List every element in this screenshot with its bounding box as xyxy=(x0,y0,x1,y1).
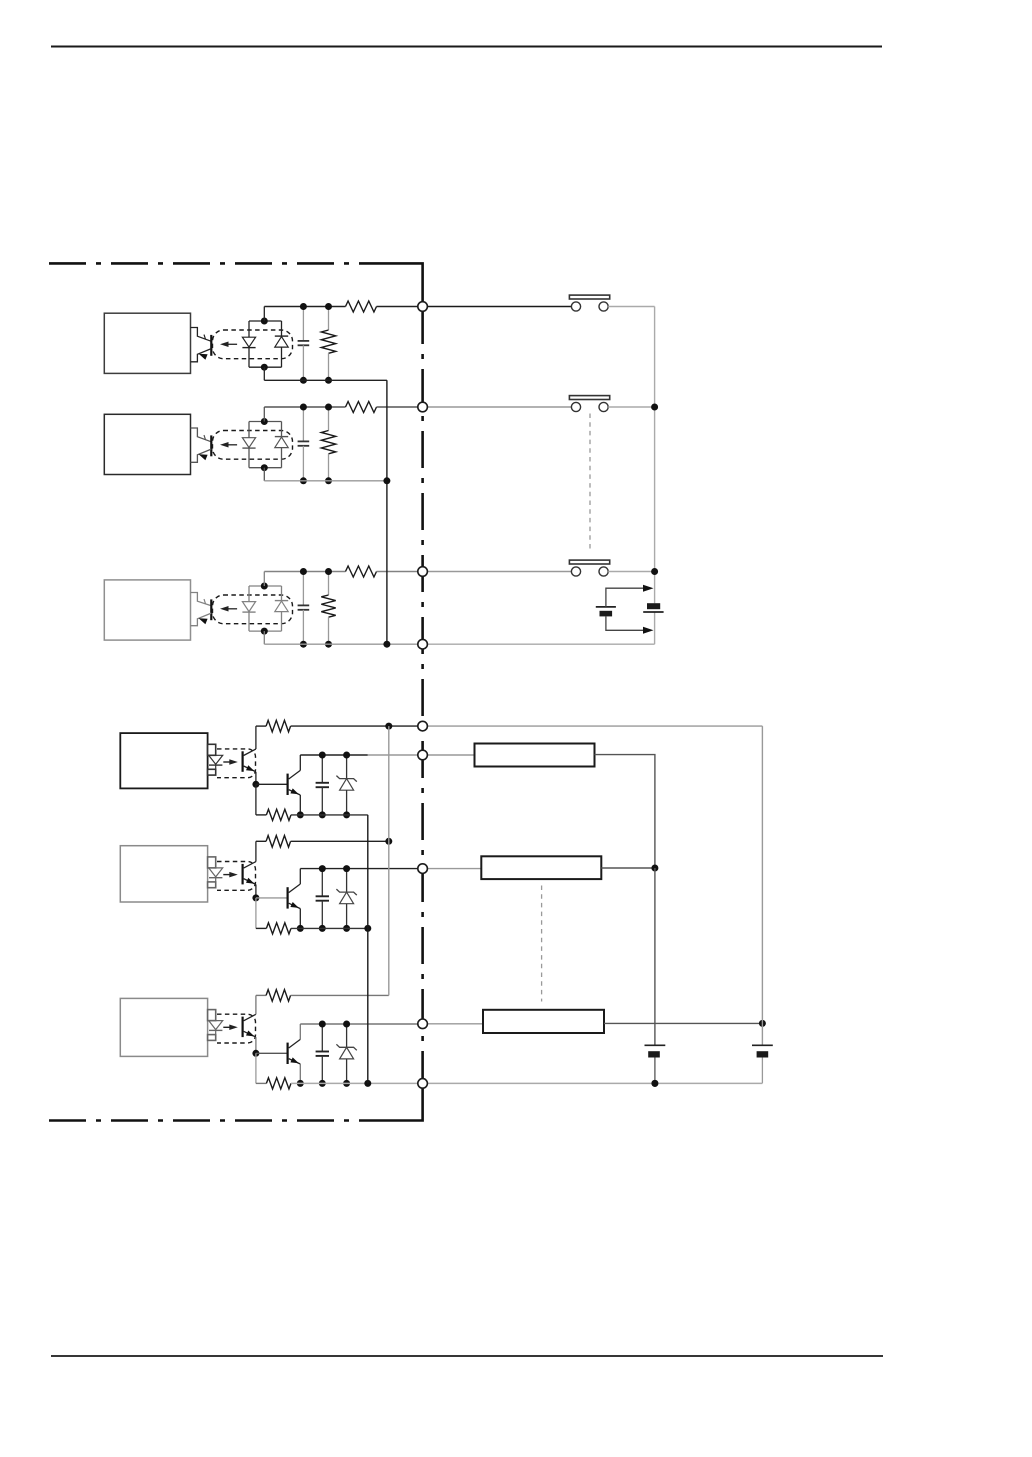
ellipsis dashed line (more output channels) xyxy=(541,886,543,1002)
junction zener-bottom OUT2 xyxy=(343,925,350,932)
junction cap-bottom OUT3 xyxy=(319,1080,326,1087)
switch S3 contacts xyxy=(571,567,580,576)
wire emitter bus OUT3 to terminal xyxy=(291,1082,418,1084)
junction zener-top OUT1 xyxy=(343,752,350,759)
optocoupler PC2 light arrow xyxy=(224,444,237,446)
capacitor C6 OUT3 xyxy=(321,1024,323,1052)
wire Q1 collector to bus xyxy=(299,755,301,770)
resistor R4b (base-emitter) OUT1 xyxy=(255,784,257,815)
junction cap-bottom IN3 xyxy=(300,641,307,648)
wire terminal to switch S3 xyxy=(427,571,571,573)
junction zener-bottom OUT3 xyxy=(343,1080,350,1087)
optocoupler PC6 dashed outline xyxy=(217,1014,256,1043)
junction cap-bottom OUT1 xyxy=(319,811,326,818)
optocoupler PC4 LED D4 xyxy=(209,755,223,764)
wire phototransistor emitter to base node OUT3 xyxy=(255,1037,257,1053)
capacitor C4 OUT1 xyxy=(321,755,323,783)
wire switch S2 to supply rail xyxy=(608,406,654,408)
junction base node OUT3 xyxy=(252,1050,259,1057)
input LED pair D2a anti-parallel bridge xyxy=(248,422,250,438)
wire bridge stubs IN3 xyxy=(263,572,265,587)
unit boundary dash-dot right edge xyxy=(421,307,424,1083)
wire field supply rail (right vertical) xyxy=(654,307,656,604)
junction emitter OUT1 xyxy=(297,811,304,818)
wire base OUT1 xyxy=(256,783,287,785)
terminal node T4 xyxy=(418,639,428,649)
optocoupler PC1 dashed outline xyxy=(213,330,293,359)
wire COM return IN xyxy=(427,643,654,645)
junction res-bottom IN2 xyxy=(325,477,332,484)
optocoupler PC4 LED terminals xyxy=(208,744,216,755)
wire input line IN1 top xyxy=(264,306,345,308)
optocoupler PC3 light arrow xyxy=(224,608,237,610)
terminal node T5 xyxy=(418,721,428,731)
wire output supply vertical (gray) xyxy=(388,726,390,995)
junction bridge-bottom IN2 xyxy=(261,464,268,471)
junction common vertical OUT3 xyxy=(364,1080,371,1087)
wire Q3 collector to bus xyxy=(299,1024,301,1039)
resistor R4a (collector) OUT1 xyxy=(256,725,266,727)
junction zener-bottom OUT1 xyxy=(343,811,350,818)
transistor Q1 power NPN xyxy=(287,774,289,795)
unit boundary bottom-right corner xyxy=(396,1083,423,1120)
zener diode ZD1 OUT1 xyxy=(346,755,348,779)
wire input line IN3 bottom xyxy=(264,643,418,645)
unit boundary top-right corner xyxy=(396,263,423,307)
optocoupler PC6 phototransistor xyxy=(242,1017,244,1038)
switch S2 contacts xyxy=(571,402,580,411)
page bottom rule xyxy=(51,1355,883,1357)
zener diode ZD3 OUT3 xyxy=(346,1024,348,1047)
wire R5a to supply vertical OUT2 xyxy=(291,840,389,842)
transistor Q2 power NPN xyxy=(287,887,289,908)
junction cap-top IN2 xyxy=(300,404,307,411)
input LED pair D3a anti-parallel bridge xyxy=(248,586,250,602)
switch S2 actuator bar xyxy=(569,396,609,400)
junction zener-top OUT3 xyxy=(343,1021,350,1028)
junction res-bottom IN1 xyxy=(325,377,332,384)
resistor R1a (series input) xyxy=(346,301,377,312)
wire R4a to supply terminal OUT1 xyxy=(291,725,418,727)
optocoupler PC4 light arrow xyxy=(223,761,233,763)
wire bridge stubs IN2 xyxy=(263,407,265,422)
capacitor C1 (filter) xyxy=(302,307,304,341)
junction rail S3 xyxy=(651,568,658,575)
terminal node T6 xyxy=(418,750,428,760)
output internal-circuit box OUT1 xyxy=(120,733,207,788)
wire phototransistor emitter to base node OUT2 xyxy=(255,884,257,898)
optocoupler PC5 LED terminals xyxy=(208,857,216,868)
wire input line IN3 top xyxy=(264,571,345,573)
wire base OUT2 xyxy=(256,897,287,899)
junction emitter OUT3 xyxy=(297,1080,304,1087)
wire input common vertical xyxy=(386,380,388,644)
resistor R3b (bleeder) xyxy=(328,572,330,596)
page top rule xyxy=(51,46,882,48)
optocoupler PC2 dashed outline xyxy=(213,431,293,460)
switch S1 actuator bar xyxy=(569,295,609,299)
unit boundary dash-dot top edge xyxy=(49,262,396,265)
load L1 box xyxy=(427,754,474,756)
battery BT1 input supply (right polarity) xyxy=(647,603,660,609)
wire Q2 emitter to bus xyxy=(299,909,301,929)
junction emitter OUT2 xyxy=(297,925,304,932)
input internal-circuit box IN1 xyxy=(104,313,190,373)
junction base node OUT2 xyxy=(252,894,259,901)
optocoupler PC1 light arrow xyxy=(224,343,237,345)
junction bridge-top IN2 xyxy=(261,418,268,425)
transistor Q3 power NPN xyxy=(287,1043,289,1064)
terminal node T9 xyxy=(418,1079,428,1089)
junction COM bus BT2 xyxy=(651,1080,658,1087)
junction cap-top OUT3 xyxy=(319,1021,326,1028)
resistor R6b (base-emitter) OUT3 xyxy=(255,1053,257,1083)
wire collector bus OUT1 xyxy=(300,754,368,756)
switch S1 contacts xyxy=(571,302,580,311)
wire output supply top run xyxy=(427,725,762,727)
junction cap-bottom OUT2 xyxy=(319,925,326,932)
wire terminal to switch S1 xyxy=(427,306,571,308)
wire supply rail down to battery BT2 xyxy=(654,868,656,1045)
switch S3 actuator bar xyxy=(569,560,609,564)
wire output common vertical (black) xyxy=(367,815,369,1084)
capacitor C5 OUT2 xyxy=(321,869,323,897)
junction res-bottom IN3 xyxy=(325,641,332,648)
wire bridge stubs IN1 xyxy=(263,307,265,322)
junction res-top IN2 xyxy=(325,404,332,411)
wire base OUT3 xyxy=(256,1052,287,1054)
optocoupler PC4 dashed outline xyxy=(217,749,256,778)
wire battery alternate top lead xyxy=(606,588,646,607)
junction bridge-bottom IN3 xyxy=(261,628,268,635)
optocoupler PC1 phototransistor (output side) xyxy=(191,328,212,342)
optocoupler PC6 LED D6 xyxy=(209,1021,223,1030)
optocoupler PC2 phototransistor (output side) xyxy=(191,428,212,442)
junction bridge-bottom IN1 xyxy=(261,364,268,371)
wire phototransistor emitter to base node OUT1 xyxy=(255,772,257,785)
junction cap-top IN3 xyxy=(300,568,307,575)
wire battery alternate bottom lead xyxy=(606,616,646,630)
wire load L3 to right supply rail xyxy=(604,1022,762,1024)
wire emitter bus OUT1 to common vertical xyxy=(291,814,368,816)
load L3 box xyxy=(427,1023,483,1025)
junction right supply rail L3 xyxy=(759,1020,766,1027)
resistor R2a (series input) xyxy=(346,402,377,413)
junction bridge-top IN1 xyxy=(261,318,268,325)
junction supply vertical OUT2 xyxy=(385,838,392,845)
junction cap-top OUT2 xyxy=(319,865,326,872)
junction cap-bottom IN2 xyxy=(300,477,307,484)
input LED pair D1a anti-parallel bridge xyxy=(248,321,250,337)
input internal-circuit box IN2 xyxy=(104,414,190,474)
junction res-top IN1 xyxy=(325,303,332,310)
wire Q2 collector to bus xyxy=(299,869,301,884)
optocoupler PC5 LED D5 xyxy=(209,868,223,877)
wire phototransistor collector OUT3 xyxy=(255,995,257,1014)
junction bridge-top IN3 xyxy=(261,583,268,590)
wire collector bus OUT2 xyxy=(300,868,418,870)
terminal node T8 xyxy=(418,1019,428,1029)
junction common IN2 bottom xyxy=(264,480,387,482)
wire load L1 to supply rail xyxy=(595,755,655,868)
resistor R3a (series input) xyxy=(346,566,377,577)
unit boundary dash-dot bottom edge xyxy=(49,1119,396,1122)
junction rail S2 xyxy=(651,404,658,411)
wire input line IN2 top xyxy=(264,406,345,408)
optocoupler PC3 dashed outline xyxy=(213,595,293,624)
wire terminal to switch S2 xyxy=(427,406,571,408)
capacitor C2 (filter) xyxy=(302,407,304,441)
resistor R2b (bleeder) xyxy=(328,407,330,431)
junction cap-top OUT1 xyxy=(319,752,326,759)
wire phototransistor collector OUT1 xyxy=(255,726,257,749)
terminal node T1 xyxy=(418,302,428,312)
wire R6a to supply vertical OUT3 xyxy=(291,994,389,996)
wire resistor to terminal IN3 xyxy=(377,571,418,573)
junction res-top IN3 xyxy=(325,568,332,575)
resistor R5a (collector) OUT2 xyxy=(256,840,266,842)
junction zener-top OUT2 xyxy=(343,865,350,872)
wire Q1 emitter to bus xyxy=(299,795,301,815)
junction common IN3 bottom xyxy=(383,641,390,648)
wire emitter bus OUT2 to common vertical xyxy=(291,927,368,929)
optocoupler PC5 light arrow xyxy=(223,874,233,876)
optocoupler PC5 phototransistor xyxy=(242,864,244,885)
wire phototransistor collector OUT2 xyxy=(255,841,257,861)
terminal node T2 xyxy=(418,402,428,412)
battery BT2 load supply (left) xyxy=(645,1044,666,1046)
wire input common bus IN1 bottom xyxy=(264,379,387,381)
wire resistor to terminal IN2 xyxy=(377,406,418,408)
wire collector bus OUT3 xyxy=(300,1023,418,1025)
wire Q3 emitter to bus xyxy=(299,1064,301,1083)
junction base node OUT1 xyxy=(252,781,259,788)
output internal-circuit box OUT3 xyxy=(120,998,207,1056)
wire load L2 to supply rail xyxy=(601,867,655,869)
optocoupler PC4 phototransistor xyxy=(242,751,244,772)
load L2 box xyxy=(427,868,481,870)
battery BT1 alternate polarity cell xyxy=(596,606,616,608)
wire switch S1 to supply rail xyxy=(608,306,654,308)
zener diode ZD2 OUT2 xyxy=(346,869,348,893)
resistor R5b (base-emitter) OUT2 xyxy=(255,898,257,929)
wire right supply rail xyxy=(761,726,763,1045)
optocoupler PC6 light arrow xyxy=(223,1026,233,1028)
output internal-circuit box OUT2 xyxy=(120,846,207,902)
wire resistor to terminal IN1 xyxy=(377,306,418,308)
optocoupler PC3 phototransistor (output side) xyxy=(191,593,212,606)
terminal node T7 xyxy=(418,864,428,874)
optocoupler PC6 LED terminals xyxy=(208,1010,216,1021)
battery BT3 load supply (right) xyxy=(752,1044,773,1046)
junction common vertical OUT2 xyxy=(364,925,371,932)
junction cap-bottom IN1 xyxy=(300,377,307,384)
capacitor C3 (filter) xyxy=(302,572,304,606)
optocoupler PC5 dashed outline xyxy=(217,862,256,891)
ellipsis dashed line (more input channels) xyxy=(589,414,591,550)
resistor R1b (bleeder) xyxy=(328,307,330,331)
resistor R6a (collector) OUT3 xyxy=(256,994,266,996)
input internal-circuit box IN3 xyxy=(104,580,190,640)
terminal node T3 xyxy=(418,567,428,577)
junction supply rail L2 xyxy=(651,865,658,872)
wire output COM return xyxy=(427,1082,762,1084)
wire switch S3 to supply rail xyxy=(608,571,654,573)
junction cap-top IN1 xyxy=(300,303,307,310)
junction supply vertical OUT1 xyxy=(385,723,392,730)
